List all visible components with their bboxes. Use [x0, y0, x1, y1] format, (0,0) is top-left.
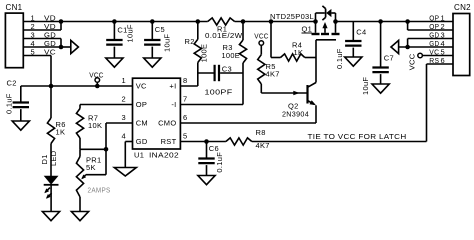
svg-text:4K7: 4K7 [266, 69, 280, 78]
capacitor C6 0.1uF [206, 142, 208, 159]
svg-text:6: 6 [441, 56, 445, 65]
ground C6 [198, 176, 215, 185]
node R6 tap [49, 84, 54, 89]
svg-text:VCC: VCC [408, 53, 417, 70]
transistor Q2 2N3904 [306, 85, 308, 104]
resistor R4 1K [270, 22, 272, 58]
svg-text:7: 7 [183, 95, 187, 104]
CN1 pin 4 wire GD [23, 46, 61, 48]
capacitor C4 0.1uF [352, 22, 354, 42]
svg-text:R2: R2 [185, 37, 195, 46]
svg-text:5: 5 [183, 132, 187, 141]
node R3 tap [241, 19, 246, 24]
ground C2 [12, 121, 29, 130]
resistor R3 100E [242, 22, 244, 41]
svg-text:10uF: 10uF [162, 34, 171, 52]
svg-text:-I: -I [171, 100, 176, 109]
diode D1 LED [44, 176, 59, 185]
ground U1 [114, 168, 136, 177]
wire output rail [336, 21, 454, 23]
potentiometer PR1 5K [79, 149, 81, 156]
svg-text:2: 2 [122, 95, 126, 104]
transistor Q1 NTD25P03L [312, 33, 320, 35]
ground D1 [42, 212, 59, 221]
CN2 pin 4 wire GD [399, 46, 453, 48]
svg-text:4: 4 [122, 132, 126, 141]
node VCC junction [95, 84, 100, 89]
op-amp U1 INA202 [133, 78, 181, 149]
wire gate to collector [315, 40, 317, 83]
CN1 pin 2 wire VD [23, 29, 61, 31]
CN2 pin 2 wire OP [407, 22, 409, 31]
svg-text:2N3904: 2N3904 [282, 110, 309, 119]
node CM junction [104, 147, 109, 152]
CN1 pin 3 wire GD [23, 38, 61, 40]
node Q1 source [313, 19, 318, 24]
resistor R8 4K7 [226, 138, 252, 145]
svg-text:R8: R8 [256, 128, 266, 137]
wire +I to R2 [180, 85, 197, 87]
node CN2 GD junction [405, 45, 410, 50]
svg-text:100E: 100E [222, 51, 241, 60]
connector CN2 [453, 14, 470, 76]
ground C7 [372, 84, 389, 93]
connector CN1 [5, 13, 23, 68]
svg-text:10uF: 10uF [361, 77, 370, 95]
svg-text:CMO: CMO [158, 119, 176, 128]
capacitor C7 10uF [380, 22, 382, 68]
svg-text:VC: VC [44, 47, 56, 56]
CN1 pin 5 wire VC [23, 55, 51, 57]
ground PR1 [71, 212, 88, 221]
resistor R7 10K [79, 105, 81, 109]
svg-text:RST: RST [161, 137, 177, 146]
svg-text:C6: C6 [209, 144, 219, 153]
wire GD pin [125, 141, 132, 143]
svg-text:LED: LED [49, 150, 58, 166]
svg-text:5: 5 [31, 47, 35, 56]
capacitor C5 [151, 22, 153, 41]
svg-text:0.1uF: 0.1uF [335, 48, 344, 69]
node C1 tap [112, 19, 117, 24]
ground C5 [144, 58, 161, 67]
svg-text:2AMPS: 2AMPS [88, 188, 111, 195]
svg-text:100E: 100E [200, 44, 209, 63]
svg-text:CN2: CN2 [454, 3, 471, 12]
capacitor C1 [113, 22, 115, 41]
svg-text:3: 3 [122, 113, 126, 122]
svg-text:C2: C2 [7, 78, 17, 87]
svg-text:VC: VC [136, 82, 147, 91]
node R4 tap [269, 19, 274, 24]
svg-text:CN1: CN1 [6, 3, 23, 12]
svg-text:6: 6 [183, 113, 187, 122]
svg-text:100PF: 100PF [205, 88, 233, 97]
svg-text:TIE TO VCC FOR LATCH: TIE TO VCC FOR LATCH [308, 132, 407, 141]
svg-text:1K: 1K [56, 128, 66, 137]
svg-text:0.1uF: 0.1uF [4, 93, 13, 114]
node C6 tap [204, 139, 209, 144]
svg-text:+I: +I [169, 82, 176, 91]
svg-text:10uF: 10uF [126, 24, 135, 42]
svg-text:C3: C3 [222, 64, 232, 73]
CN2 pin 5 wire VC [422, 55, 453, 57]
wire latch [252, 141, 427, 143]
svg-text:D1: D1 [40, 154, 49, 164]
resistor R6 1K [50, 86, 52, 118]
capacitor C3 100PF [198, 72, 215, 74]
resistor R1 0.01E/2W [208, 18, 235, 25]
svg-text:GD: GD [136, 137, 148, 146]
capacitor C2 0.1uF [20, 86, 22, 103]
node R2 tap [196, 19, 201, 24]
node GD junction [59, 45, 64, 50]
svg-text:0.01E/2W: 0.01E/2W [205, 31, 243, 40]
ground CN2 [391, 40, 399, 53]
wire VCC rail [21, 85, 133, 87]
svg-text:C5: C5 [155, 25, 165, 34]
node OP junction [405, 19, 410, 24]
svg-text:C4: C4 [356, 27, 366, 36]
svg-text:8: 8 [183, 76, 187, 85]
ground C1 [106, 58, 123, 67]
svg-text:5K: 5K [86, 163, 96, 172]
svg-text:U1: U1 [134, 151, 144, 160]
svg-text:1K: 1K [294, 48, 304, 57]
svg-text:1: 1 [122, 76, 126, 85]
svg-text:10K: 10K [88, 121, 102, 130]
ground CN1 [71, 40, 79, 53]
node VD junction [59, 19, 64, 24]
wire OP to R7 [80, 104, 133, 106]
svg-text:NTD25P03L: NTD25P03L [270, 12, 314, 21]
node C7 tap [378, 19, 383, 24]
node Q1 drain [333, 19, 338, 24]
svg-text:0.1uF: 0.1uF [215, 152, 224, 173]
resistor R2 100E [197, 22, 199, 40]
svg-text:VCC: VCC [254, 31, 269, 40]
wire -I to R3 [180, 104, 243, 106]
svg-text:C7: C7 [384, 53, 394, 62]
wire VIN rail mid [235, 21, 316, 23]
CN1 pin 1 wire VD [23, 21, 61, 23]
resistor R5 4K7 [260, 45, 262, 54]
svg-text:OP: OP [136, 100, 147, 109]
node C5 tap [150, 19, 155, 24]
wire RST [180, 141, 226, 143]
wire R7 bottom node [80, 148, 106, 150]
svg-text:Q1: Q1 [302, 25, 313, 34]
svg-text:INA202: INA202 [149, 151, 179, 160]
CN2 pin 6 wire RS [427, 63, 454, 65]
ground C4 [345, 57, 362, 66]
wire emitter to CMO [315, 105, 317, 123]
wire CM [106, 122, 133, 124]
wire VIN rail left [61, 21, 208, 23]
svg-text:CM: CM [136, 119, 148, 128]
CN2 pin 3 wire GD [408, 38, 453, 40]
svg-text:RS: RS [429, 56, 439, 65]
wire R5 to base [261, 92, 307, 94]
